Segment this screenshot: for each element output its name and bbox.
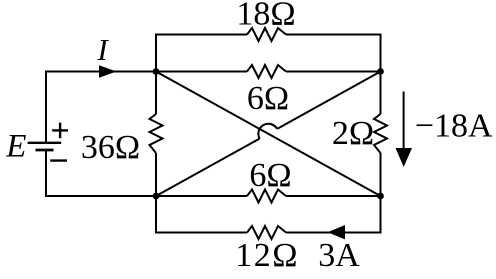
resistor 12ohm zigzag — [247, 226, 286, 239]
wire left rail top: E to corner up to main wire — [46, 72, 156, 142]
node left-top junction dot — [153, 68, 160, 75]
resistor 36ohm zigzag vertical — [150, 114, 163, 153]
wire diagonal B bottom-left segment — [156, 139, 260, 196]
node right-top junction dot — [377, 68, 384, 75]
wire 36-ohm branch lower — [155, 153, 157, 196]
battery plate long (+) — [28, 142, 62, 144]
resistor 2ohm zigzag vertical — [374, 114, 387, 153]
svg-text:12Ω: 12Ω — [235, 237, 299, 274]
battery minus sign — [50, 159, 67, 161]
node right-bottom junction dot — [377, 193, 384, 200]
battery plate short (-) — [36, 149, 54, 152]
svg-text:6Ω: 6Ω — [247, 80, 289, 117]
resistor 6ohm (middle top) zigzag — [247, 65, 286, 78]
node left-bottom junction dot — [153, 193, 160, 200]
svg-text:I: I — [96, 32, 109, 67]
svg-text:2Ω: 2Ω — [332, 115, 374, 152]
wire diagonal A top-left to bottom-right — [156, 72, 381, 197]
svg-text:6Ω: 6Ω — [249, 157, 291, 194]
resistor R 18ohm zigzag — [247, 28, 286, 41]
battery plus sign — [52, 129, 68, 131]
svg-text:3A: 3A — [318, 237, 360, 274]
svg-text:−18A: −18A — [415, 108, 493, 145]
wire main horizontal right of 6-ohm — [286, 71, 381, 73]
wire lower branch right with 3A arrow — [286, 196, 381, 233]
svg-text:18Ω: 18Ω — [236, 0, 295, 33]
resistor 6ohm (bottom) zigzag — [247, 190, 286, 203]
current arrow -18A shaft — [403, 92, 405, 152]
wire diagonal B top-right segment — [277, 72, 380, 129]
current arrowhead I — [99, 65, 117, 77]
wire top branch right — [286, 35, 381, 72]
wire hop arc over crossing — [258, 124, 277, 139]
wire lower branch left drop — [156, 196, 247, 233]
wire 2-ohm branch lower — [380, 153, 382, 196]
wire main horizontal left of 6-ohm — [156, 71, 247, 73]
wire 2-ohm branch upper — [380, 72, 382, 115]
wire bottom horizontal left of 6-ohm — [156, 195, 247, 197]
current arrowhead 3A — [328, 225, 346, 239]
svg-text:E: E — [5, 129, 26, 165]
svg-text:36Ω: 36Ω — [81, 129, 140, 166]
wire bottom horizontal right of 6-ohm — [286, 195, 381, 197]
current arrowhead -18A — [396, 148, 413, 167]
wire top branch with 18-ohm — [156, 35, 247, 72]
wire 36-ohm branch upper — [155, 72, 157, 115]
wire left rail bottom: battery to bottom wire — [46, 151, 156, 196]
